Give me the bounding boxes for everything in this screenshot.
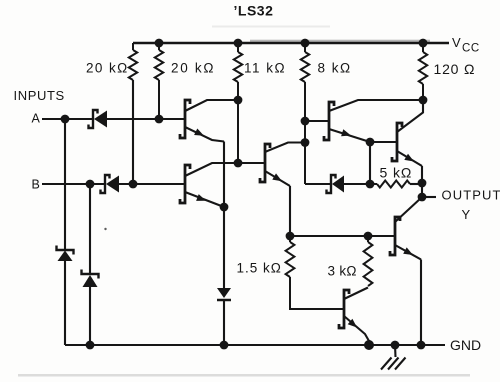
junction gnd junction B clamp [86, 341, 95, 350]
junction node B input [86, 180, 95, 189]
transistor Q4 [324, 100, 423, 142]
resistor R4 8k [301, 43, 309, 184]
resistor R1 20k (left) [129, 43, 137, 80]
wire node to Q3 base [238, 162, 265, 164]
svg-text:Y: Y [462, 207, 471, 222]
wire B clamp to ground [89, 287, 91, 345]
junction node Q4 emitter Q5 base [366, 138, 375, 147]
diode D3 clamp A schottky [57, 246, 74, 262]
svg-text:’LS32: ’LS32 [234, 3, 274, 19]
resistor R6 5k [377, 181, 410, 188]
wire ground rail [65, 344, 445, 346]
wire B clamp branch down [89, 184, 91, 274]
wire Q3 emitter down [289, 186, 291, 236]
wire base rail y236 [290, 235, 395, 237]
junction gnd junction symbol [391, 341, 400, 350]
svg-text:20 kΩ: 20 kΩ [86, 61, 129, 76]
resistor R5 120 ohm [419, 43, 427, 112]
transistor Q7 active pulldown [339, 288, 369, 342]
wire Q7 emitter to ground [368, 340, 370, 345]
junction node 120ohm Q4 Q5 collectors [419, 96, 428, 105]
junction gnd junction D5 [220, 341, 229, 350]
svg-text:OUTPUT: OUTPUT [442, 188, 500, 203]
wire D5 to ground rail [223, 300, 225, 345]
wire 8k node to Q4 base [305, 120, 329, 122]
junction rail R2 top [155, 39, 164, 48]
junction node Q1 Q2 emitters [220, 203, 229, 212]
junction node 3k Q6 base [364, 232, 373, 241]
resistor R7 3k [364, 236, 373, 286]
svg-text:5 kΩ: 5 kΩ [380, 165, 413, 181]
junction node A input [61, 115, 70, 124]
svg-text:B: B [32, 178, 40, 192]
transistor Q2 input B [180, 163, 238, 207]
junction node Q3 collector [301, 138, 310, 147]
wire 8k branch corner to D6 [305, 183, 331, 185]
junction node 5k output leg [418, 179, 427, 188]
transistor Q6 output [390, 198, 421, 260]
wire node down from Q4 emitter [369, 142, 371, 184]
resistor R3 11k [234, 43, 242, 163]
wire A clamp to ground corner [64, 261, 66, 345]
junction rail R5 VCC [419, 39, 428, 48]
wire A to Q1 base [107, 118, 185, 120]
svg-text:A: A [32, 112, 41, 126]
svg-text:20 kΩ: 20 kΩ [171, 61, 215, 76]
junction rail R4 top [301, 39, 310, 48]
diode D6 schottky feedback [327, 175, 345, 193]
svg-text:INPUTS: INPUTS [14, 88, 65, 103]
wire Q1 emitter down [223, 142, 225, 208]
diode D5 to ground [217, 288, 231, 300]
wire node to Q5 base [370, 141, 397, 143]
diode D4 clamp B schottky [82, 270, 99, 288]
svg-text:8 kΩ: 8 kΩ [318, 61, 352, 76]
wire B to Q2 base [119, 183, 185, 185]
transistor Q3 phase splitter [260, 143, 305, 187]
wire output stub [422, 196, 436, 198]
svg-text:GND: GND [450, 337, 481, 353]
wire D6 to node [344, 183, 377, 185]
wire common emitters down [223, 207, 225, 288]
wire VCC top rail [133, 42, 449, 44]
transistor Q5 output darlington top [392, 100, 423, 166]
wire A clamp branch down [64, 119, 66, 250]
wire R1 bottom to B line [132, 80, 134, 184]
svg-text:CC: CC [462, 43, 480, 55]
transistor Q1 input A [180, 100, 238, 142]
svg-text:120 Ω: 120 Ω [434, 61, 476, 77]
junction node output Y [418, 193, 427, 202]
junction node A R2 [155, 115, 164, 124]
svg-text:V: V [452, 35, 461, 50]
wire input A [42, 118, 93, 120]
junction node Q1 collector 11k [234, 96, 243, 105]
ground symbol [381, 345, 406, 370]
resistor R2 20k (second) [155, 43, 163, 119]
svg-text:11 kΩ: 11 kΩ [244, 61, 286, 76]
junction node Q4 base 8k [301, 117, 310, 126]
resistor R8 1.5k [286, 236, 344, 309]
svg-text:3 kΩ: 3 kΩ [328, 264, 357, 279]
diode D1 input A schottky [89, 110, 108, 128]
junction gnd junction Q7 emitter [364, 340, 374, 350]
svg-text:1.5 kΩ: 1.5 kΩ [237, 261, 282, 276]
wire Q5 emitter to output node [421, 166, 423, 197]
wire input B [42, 183, 105, 185]
junction node D6 5k [366, 180, 375, 189]
diode D2 input B schottky [101, 175, 120, 193]
junction rail R3 top [234, 39, 243, 48]
junction node Q3 emitter 1.5k [286, 232, 295, 241]
wire Q6 emitter to ground [420, 260, 422, 346]
junction node B R1 [129, 180, 138, 189]
junction node Q3 base [234, 159, 243, 168]
wire 5k to output vertical [410, 183, 422, 185]
junction gnd junction Q6 emitter [417, 341, 426, 350]
